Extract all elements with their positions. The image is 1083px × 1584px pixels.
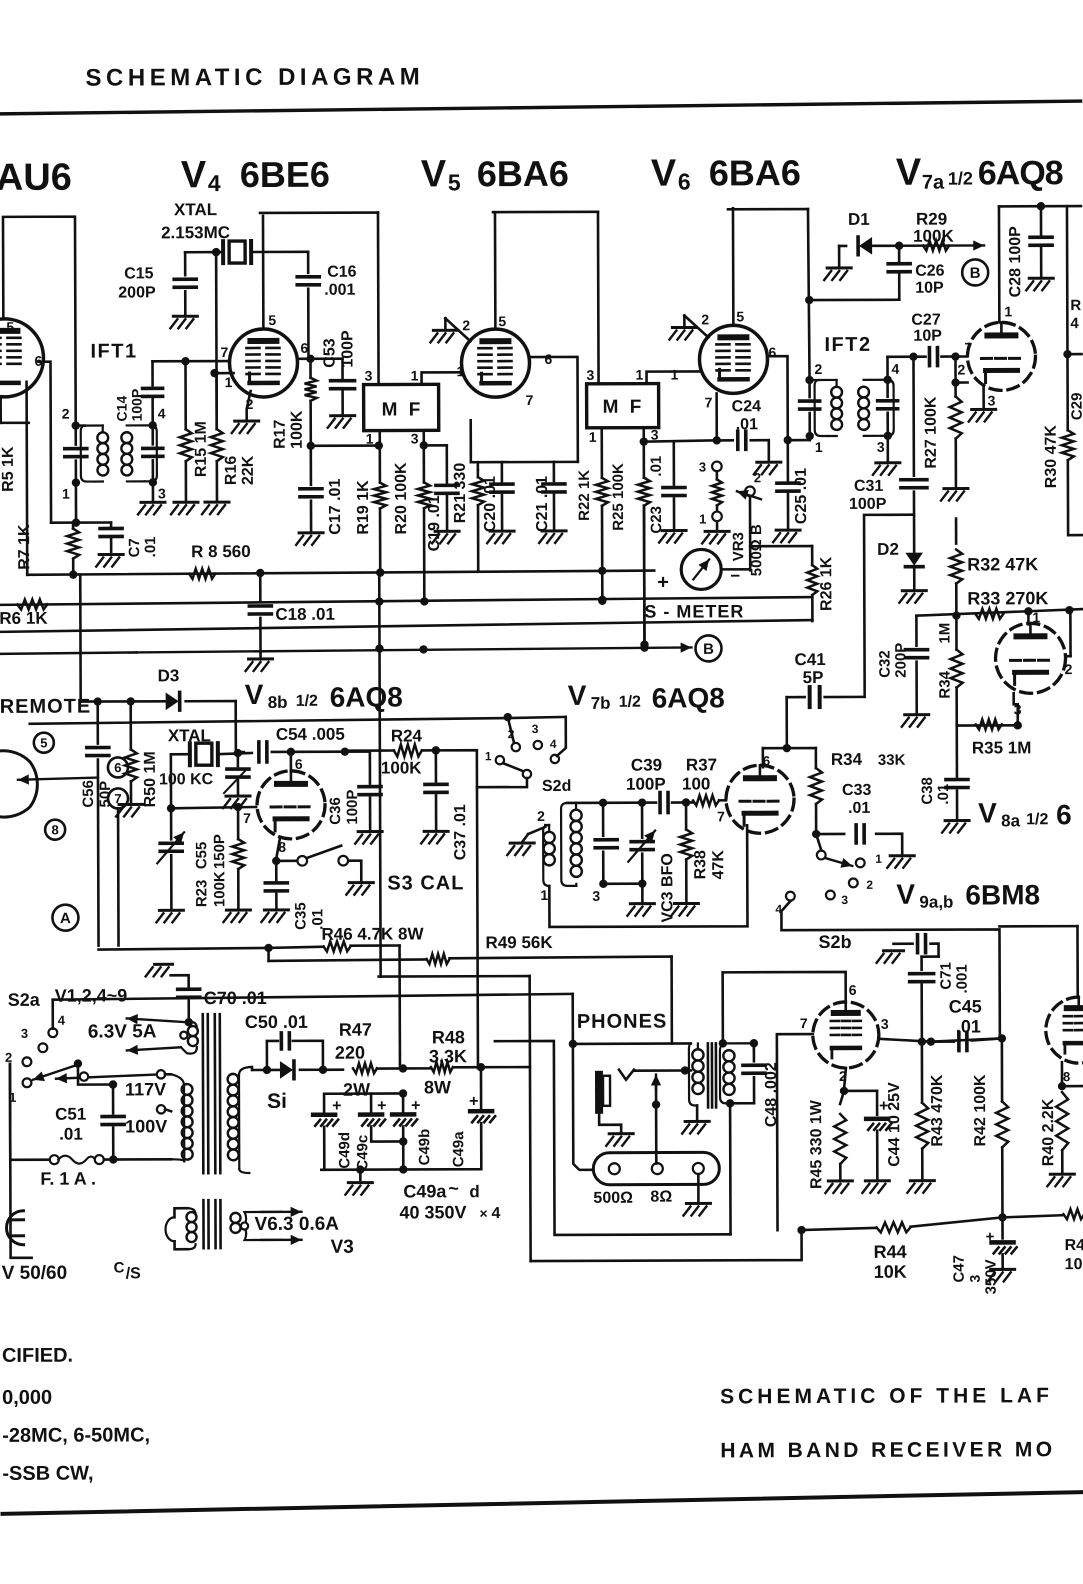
label R33 270K (967, 588, 1048, 608)
label pin 6 V6 (768, 344, 776, 360)
transformer T1 core (203, 1014, 221, 1173)
svg-text:+: + (332, 1098, 341, 1115)
diode D1 (824, 237, 903, 280)
tube V6 6BA6 (699, 325, 767, 393)
label R6 1K (0, 609, 48, 628)
svg-text:1: 1 (671, 367, 679, 383)
svg-text:SCHEMATIC OF THE LAF: SCHEMATIC OF THE LAF (720, 1384, 1053, 1408)
label R41 10K cut (1065, 1237, 1083, 1273)
plug AC (6, 1064, 24, 1245)
label C50 .01 (245, 1012, 308, 1032)
wire jack V contact (619, 1066, 691, 1079)
resistor R19 1K body (374, 431, 387, 577)
node B top right (962, 259, 988, 285)
wire y521 cathode bus (51, 521, 111, 524)
label R50 1M (142, 751, 159, 807)
label C71 .001 (938, 962, 971, 994)
wire V5 pin6 (529, 357, 577, 462)
label R22 1K (576, 470, 593, 521)
label pin1 V7a (1004, 303, 1012, 319)
svg-text:4: 4 (891, 361, 899, 377)
svg-text:R21 330: R21 330 (452, 463, 469, 524)
label C44 10 25V (886, 1082, 903, 1167)
svg-text:10P: 10P (915, 280, 944, 297)
label C33 .01 (842, 782, 872, 817)
svg-text:D3: D3 (158, 666, 180, 685)
label pin 2 V4 (246, 396, 254, 412)
label pin3 V9a (881, 1016, 889, 1032)
svg-text:4: 4 (58, 1013, 66, 1028)
potentiometer VR3 500ohm B (699, 459, 762, 570)
svg-text:220: 220 (335, 1043, 365, 1063)
capacitor C25 .01 (773, 440, 800, 542)
node pin3 IFT1 (149, 478, 166, 501)
svg-text:C45: C45 (949, 996, 982, 1016)
label pin 7 V5 (526, 392, 534, 408)
svg-text:C49a: C49a (403, 1181, 447, 1201)
transformer IFT2 secondary (858, 380, 894, 436)
resistor R25 100K (638, 428, 651, 649)
label C51 .01 (55, 1105, 86, 1144)
label pin2 V7a (957, 362, 965, 378)
svg-text:6BE6: 6BE6 (240, 154, 330, 195)
wire BFO return (549, 825, 747, 927)
wire y976 line (379, 976, 531, 1262)
wire x380 drop (375, 573, 385, 977)
label R47 220 2W (335, 1020, 372, 1100)
label V9a,b 6BM8 (896, 878, 1040, 912)
transformer T1 primary winding (171, 1074, 193, 1161)
svg-text:1/2: 1/2 (619, 694, 641, 711)
svg-text:C28 100P: C28 100P (1007, 226, 1024, 298)
label R30 47K (1043, 425, 1060, 489)
svg-text:.01: .01 (648, 456, 665, 477)
svg-text:3: 3 (532, 722, 539, 736)
svg-text:7: 7 (705, 394, 713, 410)
label C27 10P (911, 312, 942, 345)
label R23 100K (193, 871, 228, 907)
ground V6 pin2 (669, 315, 696, 339)
wire V8a pin2 (1065, 610, 1070, 656)
svg-text:C33: C33 (842, 782, 872, 799)
capacitor C15 200P (170, 252, 197, 328)
svg-text:C49c: C49c (354, 1135, 371, 1171)
svg-text:D1: D1 (848, 210, 870, 229)
svg-text:1: 1 (411, 367, 419, 383)
label pin1 IFT2 (815, 439, 823, 455)
capacitor C37 .01 (421, 750, 448, 843)
label R34 33K (831, 750, 906, 769)
svg-text:R5 1K: R5 1K (0, 446, 17, 492)
svg-text:3: 3 (699, 459, 706, 474)
svg-text:C14: C14 (114, 396, 130, 422)
resistor R47 220 2W (353, 1063, 407, 1073)
label V5 6BA6 (421, 153, 569, 196)
wire V5 pin2 diag (445, 318, 470, 341)
svg-text:V6.3 0.6A: V6.3 0.6A (254, 1214, 339, 1235)
svg-text:R40 2.2K: R40 2.2K (1040, 1098, 1057, 1166)
wire left edge vertical (1, 397, 29, 423)
capacitor IFT1 secondary tuning (143, 425, 163, 482)
svg-text:C26: C26 (915, 263, 945, 280)
svg-text:5: 5 (736, 308, 744, 324)
wire V7a pin1 (998, 206, 1001, 322)
svg-text:8: 8 (51, 822, 58, 837)
resistor R29 100K (899, 240, 984, 251)
label IFT1 (90, 340, 137, 362)
svg-text:×: × (479, 1205, 487, 1221)
svg-text:7: 7 (220, 344, 228, 360)
wire V3 plate loop (3, 217, 76, 426)
svg-text:6BA6: 6BA6 (709, 152, 801, 193)
svg-text:HAM BAND RECEIVER MO: HAM BAND RECEIVER MO (720, 1438, 1055, 1462)
svg-text:1: 1 (1004, 303, 1012, 319)
wire V6 pin2 diag (684, 315, 708, 337)
svg-text:R23: R23 (193, 880, 210, 908)
svg-text:2: 2 (814, 361, 822, 377)
svg-text:C25 .01: C25 .01 (793, 468, 810, 524)
label C49c (354, 1135, 371, 1171)
node C18 junction (256, 569, 264, 577)
wire y807 grid (171, 803, 256, 812)
wire C27 to IFT2 pin4 (886, 357, 889, 380)
svg-text:+: + (469, 1093, 478, 1110)
svg-text:8Ω: 8Ω (650, 1189, 672, 1206)
transformer OT core (708, 1043, 716, 1107)
capacitor C33 .01 (812, 825, 914, 868)
resistor R38 47K (671, 802, 698, 915)
title text SCHEMATIC DIAGRAM (85, 63, 424, 91)
capacitor C39 100P (660, 793, 668, 813)
capacitor C70 .01 (178, 989, 200, 1026)
wire R46 line (99, 943, 400, 952)
label pin8 V9b (1063, 1069, 1070, 1084)
svg-text:R26 1K: R26 1K (818, 556, 835, 611)
svg-text:C23: C23 (648, 506, 665, 534)
svg-text:R45 330 1W: R45 330 1W (808, 1099, 825, 1189)
svg-text:V3: V3 (331, 1237, 354, 1258)
wire V5 grid ladder bus (471, 420, 578, 462)
label C25 .01 (793, 468, 810, 524)
label R40 2.2K (1040, 1098, 1057, 1166)
svg-text:2: 2 (508, 727, 515, 741)
capacitor C35 .01 (261, 861, 288, 922)
wire R49 jog (267, 948, 270, 961)
wire Si to R47 (323, 1068, 343, 1071)
svg-text:VR3: VR3 (730, 532, 747, 561)
svg-text:3: 3 (592, 888, 600, 904)
label pin7 V7a (964, 339, 972, 355)
svg-text:.001: .001 (324, 282, 355, 299)
capacitor C19 .01 (432, 445, 459, 543)
capacitor C41 5P (787, 687, 865, 707)
label R7 1K (16, 524, 33, 570)
svg-text:V: V (568, 680, 587, 711)
label pin1 V4 (225, 374, 233, 390)
svg-text:500Ω: 500Ω (593, 1190, 633, 1207)
label C41 5P (795, 650, 826, 687)
label 117V (125, 1079, 166, 1099)
label R48 3.3K 8W (424, 1027, 467, 1097)
label V3 6AU6 (cut) (0, 157, 72, 199)
label C45 .01 (949, 996, 982, 1036)
tube V8b 6AQ8 (257, 771, 325, 839)
label pin3 V7a (988, 392, 996, 408)
label V4 6BE6 (181, 154, 330, 197)
text notes CIFIED (2, 1345, 73, 1367)
svg-text:.01: .01 (956, 1016, 981, 1036)
label R49 56K (485, 933, 553, 952)
label C19 .01 (426, 495, 443, 551)
label pin4 IFT2 (891, 361, 899, 377)
svg-text:1: 1 (62, 486, 70, 502)
svg-text:5: 5 (268, 312, 276, 328)
svg-text:100 KC: 100 KC (159, 771, 214, 788)
wire heater top arrow (127, 1014, 188, 1055)
label pin1 MF1 bottom (366, 431, 374, 447)
svg-text:R38: R38 (692, 850, 709, 880)
wire heater2 arrows (230, 1207, 301, 1246)
svg-text:40 350V: 40 350V (399, 1202, 466, 1222)
svg-text:V: V (245, 679, 264, 710)
wire pin8 stub (1062, 1085, 1083, 1088)
svg-text:R: R (1070, 297, 1081, 314)
wire V9a plate (723, 972, 846, 1043)
label pin 6 of V3 (34, 353, 42, 369)
capacitor C16 .001 (297, 252, 319, 359)
svg-text:1/2: 1/2 (948, 168, 973, 188)
label R38 47K (692, 850, 727, 880)
crystal XTAL 2.153MC (223, 241, 251, 263)
svg-text:100P: 100P (849, 496, 887, 513)
label pin3 MF2 top (587, 367, 595, 383)
label R29 100K (913, 210, 954, 246)
svg-text:8b: 8b (268, 693, 288, 712)
wire S2b line to V9b (999, 926, 1077, 997)
svg-text:5P: 5P (803, 668, 824, 687)
wire xtal left (167, 754, 190, 812)
label C16 .001 (324, 264, 357, 299)
label C29 right edge (1069, 393, 1083, 421)
wire C54 line (236, 742, 370, 762)
svg-text:2.153MC: 2.153MC (161, 223, 230, 242)
label pin1 BFO (540, 887, 548, 903)
label C28 100P (1007, 226, 1024, 298)
wire R49 line (269, 957, 672, 961)
svg-text:+: + (657, 572, 669, 594)
svg-text:3: 3 (411, 430, 419, 446)
svg-text:3: 3 (651, 427, 659, 443)
capacitor C36 100P (355, 752, 382, 844)
svg-text:4: 4 (491, 1205, 500, 1222)
svg-text:0,000: 0,000 (2, 1387, 52, 1409)
wire y996 bus (53, 994, 573, 1000)
node A circle (52, 905, 78, 931)
svg-text:.01: .01 (736, 416, 758, 433)
label C49a-d (399, 1178, 500, 1222)
svg-text:Si: Si (267, 1090, 287, 1113)
svg-text:1M: 1M (936, 623, 953, 644)
capacitor C38 .01 (942, 726, 969, 833)
svg-text:V: V (896, 152, 922, 194)
svg-text:R42 100K: R42 100K (972, 1074, 989, 1147)
label R44 10K (874, 1242, 907, 1282)
svg-text:C71: C71 (938, 962, 955, 990)
label S-METER minus (730, 566, 740, 585)
arrow remote A (18, 774, 98, 785)
wire V8a pin3 (1014, 693, 1018, 725)
svg-text:C36: C36 (327, 797, 344, 825)
label pin8 V8b (278, 839, 286, 855)
label pin7 V4 (220, 344, 228, 360)
label pin 5 of V3 (6, 319, 14, 335)
crystal XTAL 100KC (190, 743, 218, 765)
svg-text:C20 .01: C20 .01 (482, 476, 499, 532)
capacitor C21 .01 (539, 462, 566, 543)
svg-text:3: 3 (881, 1016, 889, 1032)
wire y628 bus (0, 620, 812, 632)
svg-text:C49b: C49b (416, 1129, 433, 1166)
ground V5 pin2 (430, 318, 457, 342)
svg-text:V: V (651, 153, 677, 195)
wire OT bottom drop (729, 1103, 732, 1234)
label pin 2 V5 antenna (462, 317, 470, 333)
ground IFT1 pin3 (138, 502, 165, 514)
svg-text:7: 7 (526, 392, 534, 408)
wire y721 bus (30, 718, 506, 724)
svg-text:C50 .01: C50 .01 (245, 1012, 308, 1032)
svg-text:V: V (181, 154, 207, 196)
label C24 .01 (732, 398, 762, 433)
svg-text:S2b: S2b (818, 932, 851, 952)
diode D2 (899, 553, 926, 603)
label VC3 BFO (659, 853, 676, 922)
wire V9a pin2 (840, 1068, 848, 1095)
svg-text:6: 6 (678, 168, 691, 194)
label R24 100K (381, 726, 423, 777)
fuse F.1A (10, 1155, 171, 1165)
label pin1 V8a (1032, 609, 1040, 625)
capacitor C71 .001 (877, 935, 939, 963)
svg-text:.01: .01 (59, 1125, 83, 1144)
tube V7b 6AQ8 (726, 765, 794, 833)
capacitor trimmer 100KC (223, 753, 250, 808)
wire R48 to x529 (481, 1066, 530, 1069)
label C49b (416, 1129, 433, 1166)
capacitor C28 100P (999, 202, 1081, 290)
label S2d contacts (485, 722, 557, 763)
label REMOTE (0, 696, 91, 718)
wire V6 pin7 to VR3 (715, 393, 718, 440)
wire pin7 drop (117, 808, 120, 945)
switch S2d (477, 713, 566, 788)
text notes SSBCW (2, 1463, 93, 1485)
ground C70 top (146, 964, 189, 986)
capacitor C27 10P (887, 348, 967, 366)
svg-text:C7: C7 (126, 538, 143, 557)
wire S2a pole (78, 1063, 117, 1088)
label V3 (331, 1237, 354, 1258)
svg-text:CIFIED.: CIFIED. (2, 1345, 73, 1367)
ground C49 bank (345, 1170, 372, 1195)
label C35 .01 (292, 902, 326, 930)
svg-text:D2: D2 (877, 540, 899, 559)
transformer MF box 1 (364, 384, 439, 430)
svg-text:R15 1M: R15 1M (193, 421, 210, 477)
label pin2 V9a (839, 1068, 847, 1084)
resistor R46 body (324, 941, 351, 951)
svg-text:6AQ8: 6AQ8 (652, 682, 725, 713)
label C17 .01 (327, 479, 344, 535)
svg-text:R24: R24 (391, 726, 423, 745)
wire BFO pin2 gnd (507, 827, 545, 855)
resistor R7 1K (67, 523, 79, 579)
capacitor C49a (321, 1067, 495, 1174)
svg-text:V 50/60: V 50/60 (2, 1263, 68, 1284)
svg-text:5: 5 (40, 735, 47, 750)
svg-text:M F: M F (603, 397, 645, 418)
resistor R50 1M (116, 701, 143, 816)
wire meter to VR3 wiper (721, 568, 750, 571)
capacitor C7 .01 (96, 522, 123, 566)
label pin 6 V4 (300, 340, 308, 356)
svg-text:R48: R48 (432, 1027, 465, 1047)
svg-text:3: 3 (21, 1026, 28, 1041)
tube V5 6BA6 (461, 329, 529, 397)
svg-text:C31: C31 (854, 478, 884, 495)
svg-text:C70 .01: C70 .01 (204, 988, 267, 1008)
label C7 .01 (126, 536, 159, 557)
svg-text:1: 1 (699, 511, 706, 526)
label pin6 V9a (849, 982, 857, 998)
svg-text:10K: 10K (874, 1262, 907, 1282)
node pin5 circle (34, 733, 54, 753)
svg-text:R34: R34 (831, 750, 863, 769)
capacitor IFT2 primary tuning (800, 380, 820, 440)
capacitor C18 .01 (245, 573, 272, 671)
capacitor C44 10 25V (844, 1091, 891, 1193)
resistor R15 1M (179, 361, 191, 501)
label V 50/60 C/S (2, 1259, 142, 1283)
label Si (267, 1090, 287, 1113)
label pin1 MF2 top (636, 367, 644, 383)
svg-text:S - METER: S - METER (644, 601, 744, 621)
label V7b 1/2 6AQ8 (568, 679, 725, 714)
svg-text:1: 1 (1032, 609, 1040, 625)
svg-text:C53: C53 (321, 338, 338, 368)
wire R35 line (957, 721, 1022, 730)
svg-text:6: 6 (544, 351, 552, 367)
wire S2b contact4 to V9 (781, 900, 999, 1039)
svg-text:R37: R37 (686, 755, 717, 774)
label pin 7 V6 (705, 394, 713, 410)
label R34 1M (936, 623, 953, 699)
capacitor C55 trimmer (156, 808, 184, 922)
capacitor C32 200P (901, 616, 928, 727)
svg-text:.01: .01 (935, 784, 952, 805)
svg-text:5: 5 (6, 319, 14, 335)
svg-text:.001: .001 (954, 964, 971, 993)
svg-text:2: 2 (754, 470, 761, 485)
svg-text:V: V (896, 879, 915, 910)
label R27 100K (923, 396, 940, 469)
label pin6 V7b (763, 753, 770, 768)
resistor R17 100K (304, 359, 316, 450)
wire V4 pin2 to ground (247, 391, 251, 420)
resistor R6 1K (17, 599, 47, 609)
wire V4 pin1 (210, 369, 233, 429)
wire BFO top line (567, 798, 656, 807)
